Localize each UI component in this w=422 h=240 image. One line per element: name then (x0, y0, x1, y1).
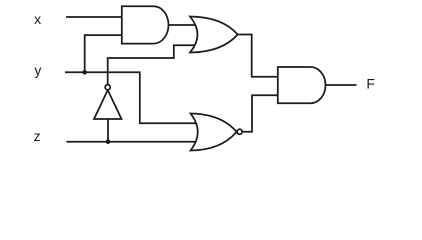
AND gate G1 (inputs x, y) (122, 6, 169, 43)
wire z input to NOR gate G4 bottom input (66, 141, 200, 143)
wire AND gate G5 output to F (326, 84, 357, 86)
NOT gate G3 inversion bubble (105, 85, 110, 90)
wire AND gate G1 output to OR gate G2 upper input (169, 24, 201, 26)
wire NOT gate G3 output, crosses y line, steps to OR gate G2 lower input (108, 45, 200, 84)
OR gate G2 (inputs from G1 and G3) (190, 17, 238, 53)
svg-text:x: x (34, 11, 41, 27)
junction node on y line (82, 70, 87, 75)
NOR gate G4 inversion bubble (237, 129, 242, 134)
NOR gate G4 body (inputs y, z) (191, 114, 237, 151)
wire x input to AND gate G1 (66, 16, 123, 18)
svg-text:z: z (34, 128, 41, 144)
wire z node up to NOT gate G3 input (107, 119, 109, 142)
junction node on z line (106, 139, 111, 144)
wire NOR gate G4 output up to AND gate G5 lower input (242, 95, 278, 132)
svg-text:F: F (366, 75, 375, 91)
svg-text:y: y (34, 62, 41, 78)
wire y input, steps down to NOR gate G4 top input (65, 72, 200, 123)
NOT gate G3 triangle (input z) (94, 90, 122, 119)
wire OR gate G2 output down to AND gate G5 upper input (238, 35, 279, 77)
wire branch from node on y to AND gate G1 lower input (85, 35, 123, 72)
AND gate G5 output stage (278, 67, 326, 103)
